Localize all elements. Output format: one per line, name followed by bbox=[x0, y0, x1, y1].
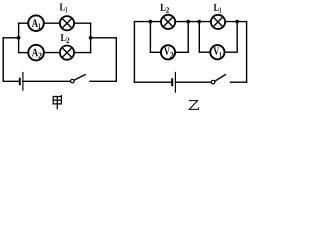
lamp L2 right bbox=[161, 15, 175, 29]
node: right junction bbox=[89, 36, 93, 40]
wire: right parallel link bbox=[90, 23, 92, 52]
wire: V1 left leg bbox=[199, 22, 210, 53]
wire: bottom left to battery bbox=[3, 80, 19, 82]
label L2 bbox=[61, 34, 70, 43]
wire: mid right feeder bbox=[91, 37, 117, 39]
node: V2 right tap bbox=[186, 20, 190, 24]
node: V1 left tap bbox=[197, 20, 201, 24]
wire: A1 to L1 bbox=[44, 22, 59, 24]
wire: V2 left leg bbox=[150, 22, 160, 53]
wire: top right segment bbox=[226, 21, 247, 23]
node: V2 left tap bbox=[149, 20, 153, 24]
wire: bottom branch right stub bbox=[75, 52, 91, 54]
wire: V2 right leg bbox=[176, 22, 189, 53]
wire: switch to right corner bbox=[231, 81, 247, 83]
wire: top branch left stub bbox=[19, 22, 28, 24]
label L1 bbox=[60, 4, 67, 13]
lamp L1 right bbox=[211, 15, 225, 29]
meter V2 bbox=[161, 45, 175, 59]
meter V1 bbox=[210, 45, 224, 59]
node: left junction bbox=[17, 36, 21, 40]
label yi bbox=[189, 101, 199, 110]
wire: battery to switch bbox=[23, 80, 70, 82]
wire: switch to right corner bbox=[90, 80, 116, 82]
wire: right outer vertical bbox=[115, 38, 117, 82]
switch right circuit bbox=[211, 74, 226, 83]
wire: left parallel link bbox=[18, 23, 20, 52]
wire: bottom branch left stub bbox=[19, 52, 28, 54]
wire: mid left feeder bbox=[3, 37, 18, 39]
wire: left outer vertical bbox=[133, 22, 135, 83]
node: V1 right tap bbox=[235, 20, 239, 24]
lamp L2 bbox=[60, 46, 74, 60]
wire: top branch right stub bbox=[75, 22, 91, 24]
battery left circuit bbox=[20, 72, 23, 91]
switch left circuit bbox=[71, 74, 86, 83]
meter A2 bbox=[28, 45, 44, 61]
label L2 right bbox=[160, 4, 169, 13]
lamp L1 bbox=[60, 16, 74, 30]
wire: top left segment bbox=[134, 21, 160, 23]
wire: battery to switch bbox=[175, 81, 211, 83]
wire: bottom left to battery bbox=[134, 81, 171, 83]
wire: V1 right leg bbox=[225, 22, 237, 53]
wire: left outer vertical bbox=[2, 38, 4, 82]
meter A1 bbox=[28, 15, 44, 31]
label L1 right bbox=[214, 4, 221, 13]
wire: A2 to L2 bbox=[45, 52, 60, 54]
wire: right outer vertical bbox=[246, 22, 248, 83]
battery right circuit bbox=[172, 72, 175, 93]
wire: between lamps bbox=[176, 21, 211, 23]
label jia bbox=[53, 95, 61, 109]
